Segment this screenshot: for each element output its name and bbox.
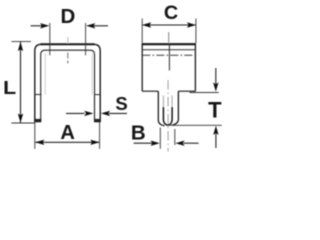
dimension C: extension lines [142,19,196,44]
right view: inner U loop (faint upper part) [163,96,172,109]
left view: U-clip outer contour [35,44,100,122]
dimension L: bottom extension line [12,122,35,124]
right leg bottom cap [94,119,101,122]
dimension T: bottom extension line [166,124,222,126]
svg-text:D: D [60,5,75,28]
right view: inner U loop (dark lower curve) [163,107,172,125]
right view: left shoulder [142,90,158,92]
left leg bottom cap [34,119,41,122]
dimension T: top extension line [190,92,219,94]
right view: center seam [168,44,170,70]
right wall kink tick [95,94,101,96]
left wall kink tick [35,94,42,96]
dimension T: top arrow (down) [215,68,217,84]
right view: tab left edge [158,91,164,126]
right view: tab right edge [172,91,178,125]
dimension D: right arrow [94,25,109,27]
dimension S: left arrow [66,112,85,114]
right view: centerline through tab [167,80,169,152]
right inner flap edge (faint) [91,53,93,95]
dimension A: dimension line with arrows [35,141,99,143]
dimension L: dimension line with arrows [20,42,22,123]
dimension A: extension lines [34,122,36,149]
left inner flap edge (faint) [44,53,46,95]
dimension L: top extension line [12,41,32,43]
right view: fold edge line [142,49,195,51]
dimension B: left arrow [134,142,153,144]
svg-text:A: A [60,121,75,144]
right view: dash-dot line [142,54,195,56]
right view: body left edge [141,44,143,91]
svg-text:C: C [164,2,178,24]
left view centerline dashes [67,37,69,44]
left view: U-clip inner contour [41,50,95,122]
right view: body top edge (thick) [142,43,196,45]
right view: centerline above body [168,32,170,44]
dimension D: extension lines [49,23,51,55]
svg-text:T: T [208,97,222,122]
right view: right shoulder [178,90,195,92]
svg-text:S: S [115,93,127,114]
dimension B: right arrow with leader [184,142,199,144]
left view: top edge emphasis [41,43,95,45]
dimension S: right arrow with leader [109,112,127,114]
dimension C: dimension line with arrows [143,24,196,26]
svg-text:L: L [3,78,16,99]
dimension T: bottom arrow (up) [215,134,217,149]
svg-text:B: B [131,122,146,145]
dimension B: extension lines [159,128,161,149]
dimension D: left arrow [31,25,42,27]
right view: body right edge [194,44,196,91]
